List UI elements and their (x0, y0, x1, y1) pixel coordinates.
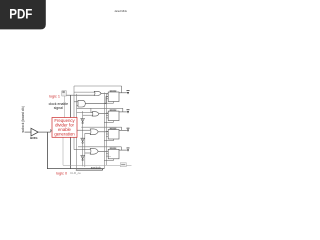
output pad so1 (127, 110, 130, 114)
wire row1 feedback top (74, 85, 122, 87)
inverter INV3 (81, 155, 85, 160)
svg-text:generation: generation (54, 132, 75, 137)
svg-text:CLR_ce: CLR_ce (70, 171, 81, 175)
output pad so2 (127, 128, 130, 132)
wire bottom dark net (76, 169, 103, 171)
wire feedback net C vertical (84, 133, 86, 167)
svg-text:Jared Mink: Jared Mink (114, 9, 127, 13)
flip-flop U4 FDCE (104, 147, 119, 160)
wire feedback net A vertical (73, 86, 75, 150)
net label box (120, 163, 126, 167)
wire VCC down to divider box (63, 96, 65, 118)
svg-text:signal: signal (54, 106, 63, 110)
power symbol VCC (62, 91, 67, 96)
svg-text:BUFG: BUFG (30, 136, 37, 140)
wire feedback net B vertical (76, 94, 78, 170)
and-gate G2 (74, 97, 108, 108)
wire BUFG output to divider box (38, 131, 50, 133)
svg-text:awclock: awclock (91, 165, 102, 169)
wire clock feedback vertical (47, 132, 104, 169)
bus vertical net E (106, 94, 108, 165)
wire row4 feedback top (78, 146, 121, 148)
output pad so0 (127, 91, 130, 95)
svg-text:PDF: PDF (9, 6, 32, 22)
or-gate G5 (74, 148, 108, 154)
annotation box Frequency divider for enable generation (50, 118, 77, 138)
wire U3 output (119, 127, 127, 130)
wire U4 output (119, 147, 127, 150)
wire divider box bottom to lower bus (62, 137, 64, 165)
wire lower light bus (63, 164, 132, 166)
wire VCC to CE net (67, 94, 95, 96)
flip-flop U1 FDCE (104, 90, 119, 103)
or-gate G3 (77, 108, 109, 116)
flip-flop U3 FDCE (104, 128, 119, 141)
or-gate G4 (77, 129, 109, 135)
svg-text:logic 1: logic 1 (49, 94, 60, 98)
svg-text:logic 0: logic 0 (56, 171, 67, 175)
wire U1 output (119, 86, 127, 93)
inverter INV1 (81, 118, 85, 123)
or-gate G1 (74, 91, 108, 95)
inverter INV2 (81, 138, 85, 143)
buffer BUFG (30, 128, 38, 140)
wire row3 feedback top (81, 126, 121, 128)
flip-flop U2 FDCE (104, 109, 119, 122)
svg-text:wclock (board clk): wclock (board clk) (21, 106, 25, 132)
PDF badge (0, 0, 46, 29)
wire U2 output (119, 108, 127, 112)
wire inverter chain vertical (82, 111, 84, 166)
output pad so3 (127, 148, 130, 152)
label clock enable signal (49, 102, 69, 110)
bus vertical net D (103, 93, 105, 169)
wire row2 feedback top (77, 107, 123, 109)
wire input to BUFG (25, 131, 32, 133)
wire CE net vertical (69, 95, 71, 168)
